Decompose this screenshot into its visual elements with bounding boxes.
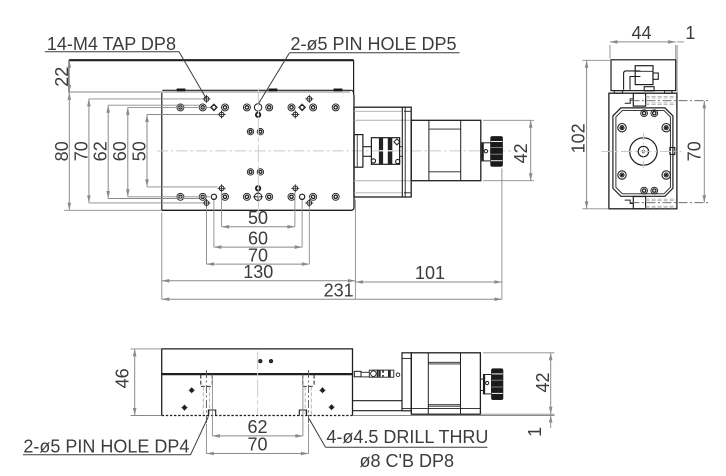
top view: tapped holes with crosshair (70/50 rows) <box>203 95 314 207</box>
svg-text:14-M4 TAP DP8: 14-M4 TAP DP8 <box>47 34 176 54</box>
bottom view: motor bracket foot <box>353 401 402 411</box>
bottom view: side set screws <box>182 387 335 410</box>
dimension 22 (table overhang) <box>52 60 72 92</box>
dimension 44 (end view top width) <box>610 23 684 93</box>
end view: bottom clamp with hidden screw lines <box>625 197 676 209</box>
end view: corner screws <box>618 124 671 180</box>
top view: base plate hidden top edge <box>69 91 350 93</box>
svg-text:ø8 C'B DP8: ø8 C'B DP8 <box>360 451 454 471</box>
top view: moving table plate (extended, break at left) <box>69 60 354 95</box>
dimension 62 (pin hole spacing) <box>212 375 303 438</box>
dimension 70 left (tap hole row spacing) <box>71 99 203 203</box>
dimension 70 (screw hole spacing, bottom view) <box>206 424 308 455</box>
top view: horizontal centerline <box>157 150 512 152</box>
label 14-M4 TAP DP8 with leader <box>45 34 207 99</box>
label 2-o5 PIN HOLE DP5 with leader <box>259 34 460 104</box>
bottom view: set screw dots on table <box>259 360 273 363</box>
top view: small plain holes lower row <box>211 194 304 199</box>
svg-text:42: 42 <box>511 143 531 163</box>
top view: motor flange plate line <box>402 107 410 197</box>
bottom view: base bottom extension line <box>353 415 555 417</box>
svg-text:1: 1 <box>685 23 695 43</box>
top view: coupling housing <box>354 107 411 197</box>
dimension 46 (stage height) <box>113 349 162 416</box>
svg-text:70: 70 <box>685 141 705 161</box>
top view: leadscrew bearing block <box>354 135 363 168</box>
svg-text:2-ø5 PIN HOLE DP5: 2-ø5 PIN HOLE DP5 <box>291 34 457 54</box>
bottom view: leadscrew end block <box>354 371 369 377</box>
dimension 101 (motor side length) <box>355 263 502 284</box>
dimension 50 bottom <box>222 192 295 229</box>
top view: rear shaft and collar <box>481 143 491 161</box>
end view: horizontal centerline <box>602 151 682 153</box>
top view: diamond-marked holes upper row <box>211 104 306 111</box>
end view: motor face plate (chamfered) <box>613 108 673 196</box>
dimension 130 (stage length) <box>162 200 356 300</box>
top view: 5mm pin hole upper <box>254 104 261 111</box>
top view: stepper motor body <box>411 120 481 180</box>
svg-text:44: 44 <box>631 23 651 43</box>
top view: small dark holes on vertical centerline <box>256 113 260 191</box>
svg-text:2-ø5 PIN HOLE DP4: 2-ø5 PIN HOLE DP4 <box>23 436 189 456</box>
end view: side tab <box>670 148 675 155</box>
svg-text:46: 46 <box>113 368 133 388</box>
end view: center shaft boss <box>630 138 657 165</box>
svg-text:80: 80 <box>52 141 72 161</box>
bottom view: coupling parts <box>378 370 400 377</box>
label 2-o5 PIN HOLE DP4 with leader <box>23 417 208 457</box>
end view: motor connector block <box>635 66 658 91</box>
top view: 5mm pin hole lower <box>253 192 263 202</box>
end view: shaft vertical centerline <box>642 133 644 170</box>
end view: bottom hole pair <box>641 187 658 194</box>
end view: cable clamp L-bracket <box>624 71 641 90</box>
bottom view: right pin hole (bottom) <box>299 410 306 416</box>
label 4-o4.5 DRILL THRU with leader <box>309 419 488 448</box>
bottom view: left counterbore screw hole (hidden) <box>201 370 212 424</box>
svg-text:42: 42 <box>533 372 553 392</box>
bottom view: bearing with ball <box>369 370 377 377</box>
svg-text:50: 50 <box>248 208 268 228</box>
svg-text:70: 70 <box>247 435 267 455</box>
svg-text:4-ø4.5 DRILL THRU: 4-ø4.5 DRILL THRU <box>326 427 488 447</box>
svg-text:102: 102 <box>569 123 589 153</box>
end view: top bracket plate <box>611 60 676 91</box>
dimension 70 (end view right) <box>631 101 709 203</box>
top view: motor shaft stub <box>400 147 403 157</box>
bottom view: manual knob (knurled) <box>492 369 503 400</box>
dimension 62 left <box>91 105 200 198</box>
top view: M4 tap holes upper row <box>177 104 339 111</box>
end view: top clamp with hidden screw lines <box>625 93 676 106</box>
top view: leadscrew shaft <box>363 147 372 157</box>
top view: vertical centerline through pin holes <box>257 89 259 224</box>
dimension 60 bottom <box>214 200 302 249</box>
svg-text:60: 60 <box>110 141 130 161</box>
bottom view: motor bracket upright <box>402 353 411 411</box>
top view: table travel stop ticks on table lower edge <box>177 89 342 91</box>
dimension 102 (end view total height) <box>569 60 611 209</box>
svg-text:22: 22 <box>52 67 72 87</box>
dimension 1 (end view plate offset) <box>685 23 695 43</box>
bottom view: rear shaft and collar <box>481 375 492 394</box>
dimension 42 (motor size, top view) <box>483 120 534 180</box>
svg-text:130: 130 <box>243 262 273 282</box>
bottom view: left pin hole (bottom) <box>208 410 215 416</box>
svg-text:50: 50 <box>129 141 149 161</box>
top view: M4 tap holes center pairs <box>247 129 263 176</box>
svg-text:1: 1 <box>525 427 545 437</box>
top view: flexible coupling <box>371 138 400 165</box>
bottom view: base bottom surface (dashed) <box>162 415 353 417</box>
bottom view: right counterbore screw hole (hidden) <box>303 370 314 424</box>
dimension 60 left <box>110 107 210 196</box>
top view: base plate outline <box>162 93 354 210</box>
end view: mounting feet tabs <box>614 91 672 94</box>
dimension 1 (motor standoff gap) <box>525 414 553 437</box>
svg-text:62: 62 <box>91 141 111 161</box>
label o8 C'B DP8 <box>360 451 454 471</box>
top view: M4 tap holes lower row <box>177 193 339 200</box>
dimension 50 left <box>129 115 217 187</box>
dimension 80 (base width) <box>52 92 162 210</box>
end view: top hole pair <box>641 110 658 117</box>
svg-text:101: 101 <box>415 263 445 283</box>
bottom view: vertical centerline <box>257 352 259 415</box>
dimension 231 (overall length) <box>162 169 502 302</box>
svg-text:231: 231 <box>324 280 354 300</box>
dimension 70 bottom <box>207 207 310 266</box>
end view: body block <box>609 93 677 209</box>
bottom view: moving table band <box>162 349 353 416</box>
dimension 42 (motor size, bottom view) <box>480 353 554 414</box>
bottom view: stepper motor body <box>411 353 480 414</box>
top view: motor hidden edges through housing <box>354 111 411 193</box>
svg-text:70: 70 <box>71 141 91 161</box>
top view: manual knob (knurled) <box>491 137 503 167</box>
